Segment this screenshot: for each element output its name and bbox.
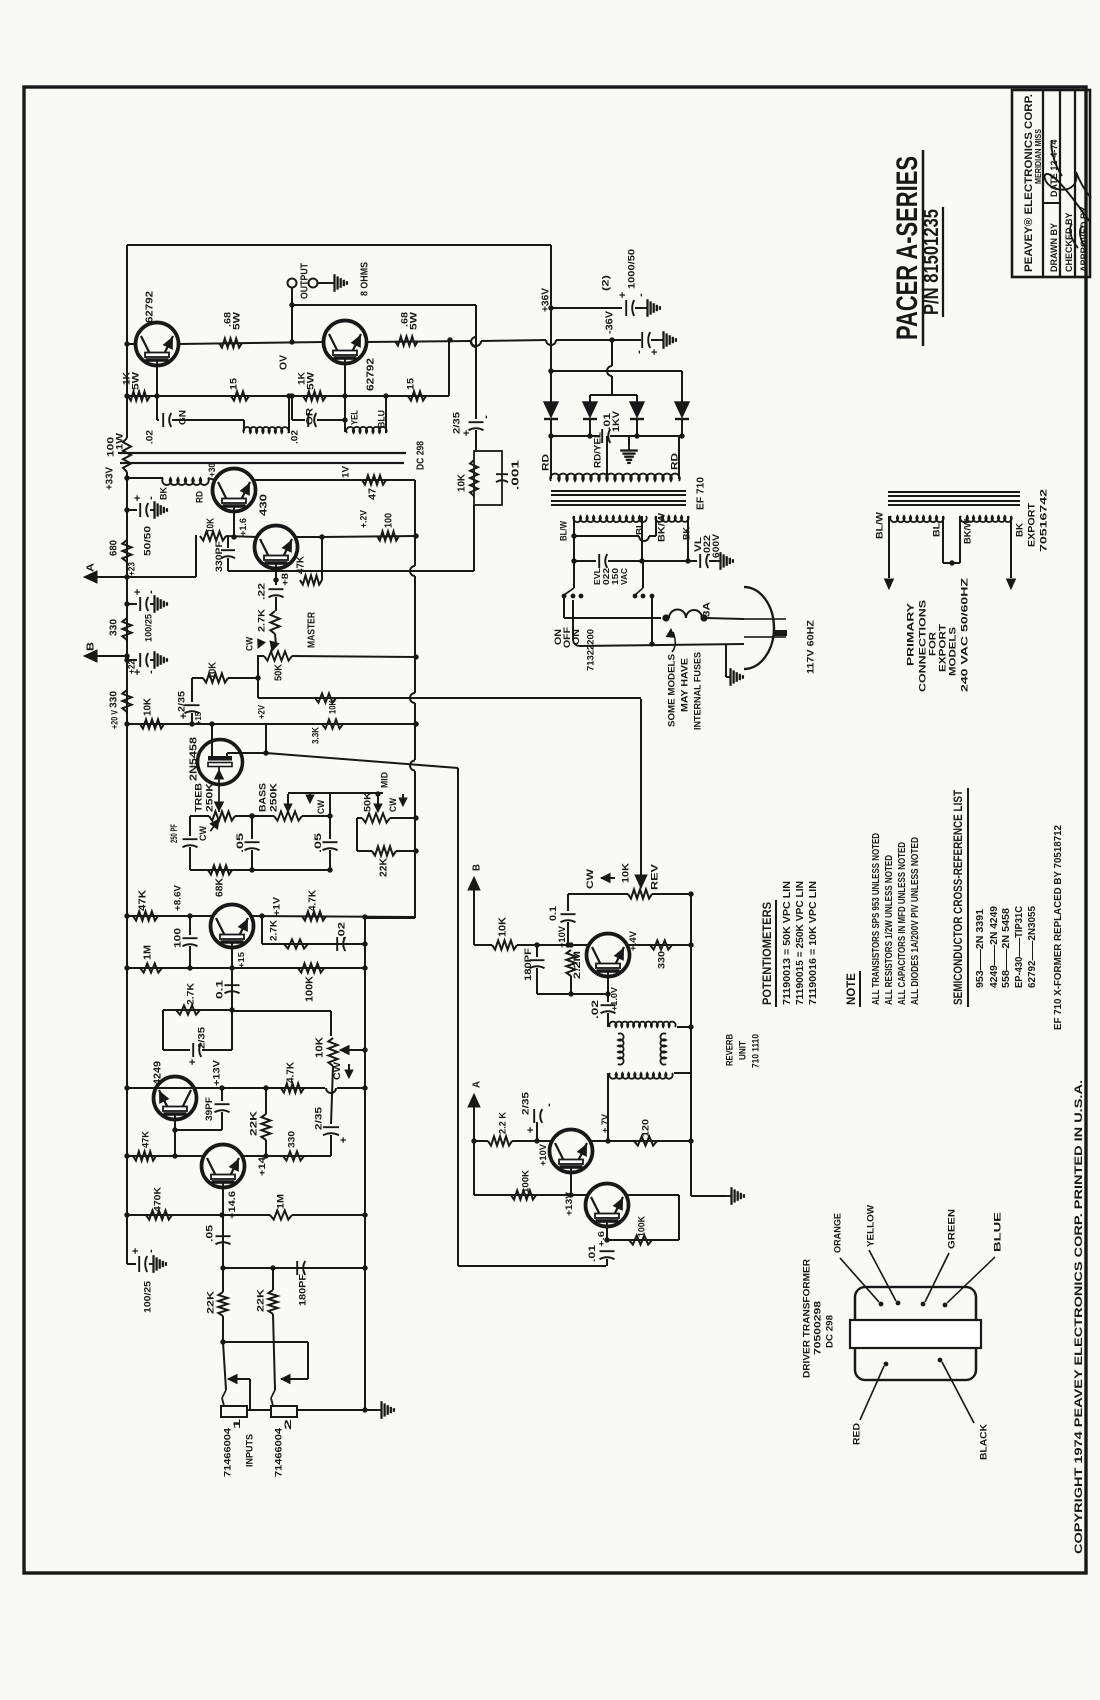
wire 10K to REV send line: [258, 697, 641, 699]
fuse note arrow: [672, 632, 675, 652]
svg-text:BL: BL: [931, 523, 942, 537]
svg-text:.01: .01: [587, 1245, 597, 1262]
wire down right of output: [475, 305, 477, 419]
resistor 470K: [127, 1214, 222, 1216]
svg-text:10K: 10K: [143, 697, 154, 716]
svg-text:RD: RD: [540, 454, 551, 471]
resistor 10K on reverb send: [315, 693, 336, 702]
svg-text:250 PF: 250 PF: [169, 824, 179, 843]
driver transformer core lines DC 298: [118, 452, 406, 454]
svg-text:330: 330: [656, 951, 667, 969]
svg-text:100K: 100K: [305, 975, 316, 1002]
svg-text:47K: 47K: [296, 555, 307, 574]
svg-text:10K: 10K: [315, 1036, 326, 1058]
svg-text:710 1110: 710 1110: [750, 1034, 761, 1068]
wire Q953 emitter chain: [231, 949, 233, 1010]
svg-text:+: +: [525, 1127, 537, 1133]
capacitor 0.1: [225, 984, 240, 986]
diode D1: [550, 371, 552, 402]
diode D4: [681, 371, 683, 402]
svg-text:NOTE: NOTE: [846, 973, 858, 1005]
power transformer core lines: [551, 490, 686, 492]
svg-text:MAY HAVE: MAY HAVE: [679, 658, 690, 712]
capacitor 180PF rev: [536, 945, 538, 957]
svg-text:A: A: [472, 1081, 483, 1088]
svg-text:.05: .05: [204, 1224, 215, 1242]
pot TREB 250K: [190, 815, 209, 817]
svg-text:+.6: +.6: [596, 1231, 606, 1247]
svg-text:CW: CW: [585, 868, 595, 889]
capacitor .02 coupling: [157, 419, 159, 421]
svg-text:BK/W: BK/W: [656, 513, 667, 542]
wire bridge bottom rail with snubber cap: [550, 419, 552, 436]
resistor 68K: [190, 869, 330, 871]
svg-text:100K: 100K: [636, 1216, 647, 1237]
input jack 2: [273, 1314, 275, 1390]
output jack circles: [288, 279, 297, 288]
wire right base rail: [345, 395, 449, 397]
svg-text:100/25: 100/25: [142, 1280, 153, 1313]
svg-text:CHECKED BY: CHECKED BY: [1064, 212, 1074, 272]
svg-text:250K: 250K: [204, 783, 215, 812]
resistor 4.7K: [302, 911, 326, 920]
wire +36V feed down: [550, 245, 552, 371]
svg-text:INTERNAL FUSES: INTERNAL FUSES: [692, 652, 703, 730]
svg-text:330: 330: [109, 619, 120, 636]
svg-text:22K: 22K: [379, 857, 390, 877]
power transformer primary BL/W-BL: [573, 516, 646, 522]
svg-text:SEMICONDUCTOR CROSS-REFERENCE: SEMICONDUCTOR CROSS-REFERENCE LIST: [953, 790, 965, 1005]
resistor 100K rev: [474, 1194, 586, 1196]
svg-text:-: -: [145, 1249, 157, 1253]
wire to Q558: [226, 536, 258, 537]
svg-text:0.1: 0.1: [214, 979, 225, 999]
svg-text:2.2M: 2.2M: [572, 951, 582, 979]
svg-text:.05: .05: [313, 833, 323, 853]
ground at 100/25 cap upper: [150, 603, 155, 605]
svg-text:2.7K: 2.7K: [268, 920, 279, 941]
svg-text:330PF: 330PF: [214, 540, 224, 572]
svg-text:15: 15: [405, 377, 416, 390]
title block box: [1012, 90, 1090, 277]
svg-text:.001: .001: [511, 459, 522, 490]
svg-text:1V: 1V: [340, 465, 351, 478]
wire coil to Q430: [208, 478, 215, 480]
svg-text:.02: .02: [590, 1000, 600, 1019]
svg-text:+30: +30: [207, 463, 217, 477]
svg-text:EXPORT: EXPORT: [1026, 503, 1037, 547]
svg-text:BL: BL: [634, 522, 645, 535]
svg-text:TREB: TREB: [193, 783, 204, 812]
svg-text:1M: 1M: [275, 1194, 286, 1209]
wire rev q3 collector loop: [625, 1194, 679, 1196]
svg-text:250K: 250K: [268, 783, 279, 812]
power transformer primary BK/W-BK: [655, 516, 688, 522]
svg-text:+.7V: +.7V: [600, 1114, 610, 1133]
wire rev driver collector: [589, 1140, 608, 1142]
svg-text:5W: 5W: [130, 372, 141, 390]
resistor 330 lower (in rail): [122, 690, 131, 712]
capacitor 2/35 emitter: [192, 1043, 194, 1057]
capacitor 100 bypass: [189, 916, 191, 935]
svg-text:DC 298: DC 298: [824, 1315, 835, 1348]
svg-text:47: 47: [368, 488, 379, 500]
svg-text:DC 298: DC 298: [416, 441, 427, 470]
svg-text:+2V: +2V: [256, 704, 267, 719]
transistor input 953: [202, 1145, 245, 1188]
svg-text:B: B: [86, 642, 97, 651]
svg-text:REVERB: REVERB: [724, 1034, 735, 1066]
svg-text:100/25: 100/25: [143, 613, 154, 642]
svg-text:100: 100: [172, 928, 183, 948]
ground at VL cap: [716, 560, 721, 562]
resistor 15 right: [408, 391, 426, 400]
master pot wiper arrow: [275, 634, 276, 645]
resistor 2.7K: [270, 611, 279, 634]
driver transformer body: [855, 1287, 976, 1380]
svg-text:100: 100: [384, 513, 395, 528]
reverb unit input coil: [609, 1022, 675, 1027]
svg-text:2/35: 2/35: [520, 1091, 531, 1115]
capacitor .22 coupling: [275, 580, 277, 585]
wire 1M rail: [127, 967, 190, 969]
svg-text:OV: OV: [279, 355, 290, 370]
capacitor .02 second: [307, 413, 309, 427]
svg-text:50K: 50K: [274, 663, 285, 681]
svg-text:100K: 100K: [520, 1170, 531, 1193]
wire Q430 collector to 47 resistor: [252, 479, 415, 481]
svg-text:47K: 47K: [138, 889, 149, 911]
svg-text:+15: +15: [236, 952, 246, 968]
svg-text:62792——2N3055: 62792——2N3055: [1027, 906, 1038, 988]
export primary BL/W-BL: [890, 516, 943, 522]
svg-text:68K: 68K: [215, 877, 226, 897]
ground at bridge center: [628, 436, 630, 446]
wire master low end: [257, 656, 259, 698]
svg-text:+36V: +36V: [541, 288, 552, 312]
svg-text:(2): (2): [600, 275, 611, 291]
ground at bottom 100/25 cap: [149, 1263, 154, 1265]
svg-text:+: +: [617, 292, 629, 298]
resistor 10K rev input: [492, 940, 517, 949]
pot MID 50K in loop: [357, 817, 362, 819]
svg-text:+: +: [178, 713, 190, 719]
svg-text:-: -: [635, 293, 647, 297]
capacitor .02 rev: [601, 1004, 616, 1006]
svg-text:INPUTS: INPUTS: [244, 1434, 255, 1467]
svg-text:22K: 22K: [255, 1289, 266, 1312]
svg-text:POTENTIOMETERS: POTENTIOMETERS: [762, 902, 774, 1005]
power switch contacts: [562, 594, 567, 599]
wire Q558 emitter lead: [275, 570, 277, 580]
svg-text:62792: 62792: [366, 357, 377, 391]
svg-text:ALL CAPACITORS IN MFD UNLESS N: ALL CAPACITORS IN MFD UNLESS NOTED: [897, 842, 908, 1005]
svg-text:180PF: 180PF: [523, 947, 533, 981]
wire switch to fuse: [563, 596, 565, 618]
wire jfet source to reverb send: [227, 752, 266, 754]
resistor 4.7K input: [281, 1083, 304, 1092]
svg-text:CW: CW: [388, 798, 398, 812]
ground at AC plug: [726, 676, 731, 678]
svg-text:4249——2N 4249: 4249——2N 4249: [989, 906, 1000, 988]
svg-text:+1.0V: +1.0V: [609, 987, 619, 1011]
svg-text:3A: 3A: [701, 602, 712, 617]
svg-text:-: -: [145, 670, 157, 674]
svg-text:+: +: [132, 589, 144, 595]
resistor 47K emitter: [300, 575, 322, 584]
resistor 10K master low: [203, 673, 228, 682]
svg-text:62792: 62792: [145, 291, 156, 323]
bus reverb right: [690, 894, 692, 1196]
wire output node to right: [292, 304, 476, 306]
svg-text:DRAWN BY: DRAWN BY: [1049, 223, 1059, 272]
svg-text:1M: 1M: [143, 945, 154, 960]
svg-text:ALL RESISTORS 1/2W UNLESS NOTE: ALL RESISTORS 1/2W UNLESS NOTED: [884, 855, 895, 1005]
svg-text:MASTER: MASTER: [307, 611, 318, 648]
svg-text:+33V: +33V: [105, 467, 116, 490]
svg-text:1W: 1W: [114, 433, 125, 450]
ground at lower 1000/50 cap: [659, 339, 664, 341]
resistor 120: [608, 1140, 691, 1142]
svg-text:-: -: [480, 415, 492, 419]
transistor Q953 preamp: [211, 905, 254, 948]
svg-text:330: 330: [109, 691, 120, 708]
wire plug to ground: [725, 644, 727, 677]
driver transformer primary BK-RD: [127, 477, 163, 479]
svg-text:2: 2: [283, 1419, 293, 1430]
wire Q2 base lead down: [344, 362, 346, 432]
wire Q1 collector from rail: [127, 343, 135, 345]
resistor 10K driver feedback: [200, 531, 226, 540]
power transformer EF710 secondary winding: [550, 474, 680, 481]
svg-text:BLUE: BLUE: [992, 1212, 1003, 1252]
svg-text:2N5458: 2N5458: [189, 736, 200, 781]
svg-text:OUTPUT: OUTPUT: [300, 263, 311, 299]
capacitor VL .022 600V with ground: [699, 554, 701, 568]
capacitor 2/35 bypass: [191, 678, 193, 702]
svg-text:39PF: 39PF: [204, 1096, 214, 1121]
wire to right bus: [322, 536, 415, 537]
transistor reverb driver 2: [586, 1184, 629, 1227]
svg-text:+: +: [132, 669, 144, 675]
svg-text:22K: 22K: [248, 1111, 259, 1136]
wire 4249 collector feed: [127, 1087, 325, 1089]
wire Q430 emitter lead: [233, 513, 235, 537]
svg-text:ALL DIODES 1A/200V PIV UNLESS: ALL DIODES 1A/200V PIV UNLESS NOTED: [910, 837, 921, 1005]
resistor .68 5W: [219, 338, 242, 347]
wire lower base rail: [127, 395, 289, 397]
svg-text:2/35: 2/35: [176, 690, 187, 712]
svg-text:10K: 10K: [208, 661, 219, 679]
resistor 330 (in rail): [122, 618, 131, 640]
svg-text:71466004: 71466004: [273, 1427, 284, 1477]
driver transformer secondary GN-OR: [243, 427, 288, 433]
wire to GN coil: [172, 419, 244, 421]
svg-text:+: +: [461, 430, 473, 436]
wire reverb ground: [691, 1195, 727, 1197]
bass wiper tie line: [288, 792, 383, 794]
capacitor 330PF: [221, 549, 235, 551]
svg-text:71322200: 71322200: [585, 629, 596, 671]
fuse 3A: [663, 615, 669, 621]
jack switch wires: [223, 1341, 308, 1343]
jfet 2N5458: [198, 740, 243, 785]
capacitor .05 second: [327, 813, 332, 818]
reverb unit output coil: [609, 1073, 672, 1079]
reverb spring coils: [618, 1033, 624, 1064]
gain pot wiper: [340, 1046, 349, 1055]
svg-text:15: 15: [228, 377, 239, 390]
lead dots: [879, 1302, 884, 1307]
svg-text:680: 680: [109, 540, 120, 556]
svg-text:BL/W: BL/W: [558, 521, 569, 541]
wire A line: [94, 576, 196, 578]
resistor 3.3K: [322, 719, 343, 728]
svg-text:1000/50: 1000/50: [626, 249, 637, 289]
svg-text:-: -: [633, 350, 645, 354]
resistor 2.2K: [488, 1136, 512, 1145]
capacitor 100/25 lower with ground: [127, 659, 137, 661]
wire rev driver emitter: [570, 1174, 572, 1195]
wire B input to reverb amp: [468, 877, 480, 890]
svg-text:10K: 10K: [620, 863, 631, 883]
wire output tap: [291, 288, 293, 342]
svg-text:71190013 = 50K VPC LIN: 71190013 = 50K VPC LIN: [782, 881, 793, 1005]
svg-text:430: 430: [259, 493, 270, 516]
wire emitter resistor loop: [163, 1009, 232, 1011]
svg-text:BK: BK: [158, 487, 169, 500]
resistor 100 1W (in rail): [123, 438, 131, 472]
svg-text:8 OHMS: 8 OHMS: [360, 262, 371, 296]
svg-text:330: 330: [286, 1131, 297, 1148]
driver transformer secondary YEL-BLU: [346, 427, 386, 433]
jfet gate line with arrows: [218, 767, 220, 813]
svg-text:0.1: 0.1: [548, 906, 558, 921]
svg-text:.22: .22: [256, 583, 267, 600]
svg-text:RD: RD: [669, 453, 680, 470]
wire input emitter down: [222, 1189, 224, 1268]
svg-text:+23: +23: [126, 562, 137, 576]
svg-text:A: A: [86, 563, 97, 572]
wire REV send drop: [640, 699, 642, 875]
svg-text:+.2V: +.2V: [358, 509, 369, 528]
svg-text:1: 1: [232, 1419, 242, 1429]
resistor 10K supply: [140, 719, 164, 728]
svg-text:VAC: VAC: [619, 568, 629, 585]
capacitor .05 input: [216, 1235, 231, 1237]
svg-text:2.7K: 2.7K: [256, 609, 267, 632]
svg-text:600V: 600V: [711, 534, 721, 558]
wire pot bottom chain: [331, 1066, 333, 1124]
svg-text:CW: CW: [198, 826, 208, 841]
resistor 22K jack 2: [272, 1268, 274, 1290]
pot 10K gain: [330, 1011, 332, 1036]
bass wiper arrow: [287, 794, 289, 806]
svg-text:5W: 5W: [305, 372, 316, 390]
signature scrawl: [1045, 140, 1091, 222]
svg-text:4.7K: 4.7K: [308, 889, 319, 911]
resistor 680 (in rail): [122, 540, 131, 562]
svg-text:EF 710 X-FORMER REPLACED BY: EF 710 X-FORMER REPLACED BY 70518712: [1053, 825, 1064, 1030]
svg-text:+: +: [338, 1137, 350, 1143]
svg-text:MERIDIAN MISS: MERIDIAN MISS: [1033, 129, 1043, 184]
svg-text:71190016 = 10K VPC LIN: 71190016 = 10K VPC LIN: [808, 881, 819, 1005]
svg-text:5W: 5W: [231, 312, 242, 330]
wire emitter rail across output stage: [179, 342, 323, 344]
svg-text:ALL TRANSISTORS SPS 953 UNLESS: ALL TRANSISTORS SPS 953 UNLESS NOTED: [871, 833, 882, 1005]
lead lines and color labels: [840, 1258, 879, 1302]
svg-text:2.7K: 2.7K: [185, 983, 196, 1005]
wire output to ground: [318, 282, 330, 284]
wire 47K base rail: [127, 1155, 202, 1157]
export transformer core lines: [888, 491, 1020, 493]
wire from box bottom to feedback line: [473, 505, 475, 571]
svg-text:EP-430——TIP31C: EP-430——TIP31C: [1014, 906, 1025, 988]
wire bridge mid rail: [590, 394, 637, 396]
ground at reverb: [727, 1195, 732, 1197]
svg-text:RD/YEL: RD/YEL: [592, 432, 603, 468]
svg-text:BASS: BASS: [257, 783, 268, 812]
right mini bus: [364, 917, 366, 1410]
resistor .68 5W right: [395, 336, 418, 345]
svg-text:10K: 10K: [327, 700, 338, 714]
svg-text:240 VAC 50/60HZ: 240 VAC 50/60HZ: [959, 578, 970, 692]
svg-text:120: 120: [640, 1119, 651, 1137]
resistor 1M input: [270, 1210, 292, 1219]
svg-text:+8: +8: [280, 573, 290, 586]
svg-text:47K: 47K: [140, 1131, 151, 1148]
capacitor 39PF: [221, 1088, 223, 1101]
resistor 1K 5W mid: [303, 391, 326, 400]
potentiometer MASTER 50K: [257, 655, 264, 657]
svg-text:2/35: 2/35: [313, 1106, 324, 1130]
svg-text:+13V: +13V: [211, 1059, 222, 1086]
capacitor 2/35 rev drive: [533, 1109, 535, 1123]
svg-text:180PF: 180PF: [297, 1274, 308, 1306]
pot BASS 250K: [249, 813, 254, 818]
svg-text:SOME MODELS: SOME MODELS: [666, 654, 677, 727]
capacitor 1000/50 lower with ground: [612, 339, 641, 341]
svg-text:.02: .02: [289, 430, 300, 444]
svg-text:70500298: 70500298: [812, 1301, 823, 1355]
resistor 22K vertical: [265, 1088, 267, 1114]
wire 39PF to 4249 emitter lead: [174, 1121, 176, 1156]
svg-text:-: -: [543, 1103, 555, 1107]
input jack 1: [222, 1316, 224, 1342]
capacitor 1000/50 (2) with ground: [551, 307, 622, 309]
wire to VL cap: [642, 560, 697, 562]
svg-text:MID: MID: [379, 772, 390, 788]
resistor 47: [362, 475, 386, 484]
resistor 100: [377, 531, 399, 540]
svg-text:10K: 10K: [498, 916, 509, 937]
resistor 330 rev collector: [626, 944, 691, 946]
svg-text:+: +: [130, 1248, 142, 1254]
svg-text:BK: BK: [1014, 523, 1025, 537]
svg-text:+13V: +13V: [564, 1192, 574, 1216]
resistor 2.2M: [570, 945, 572, 952]
resistor 100K rev 2: [606, 1228, 608, 1240]
ground at 1000/50 cap: [643, 307, 648, 309]
transistor reverb driver: [550, 1130, 593, 1173]
diode D2: [589, 395, 591, 402]
svg-text:CW: CW: [244, 637, 255, 651]
wire feedback 2.7K .02: [261, 916, 263, 944]
transistor 430 driver: [213, 469, 256, 512]
wire A return: [468, 1094, 480, 1107]
transistor reverb recovery: [587, 934, 630, 977]
svg-text:71190015 = 250K VPC LIN: 71190015 = 250K VPC LIN: [795, 881, 806, 1005]
